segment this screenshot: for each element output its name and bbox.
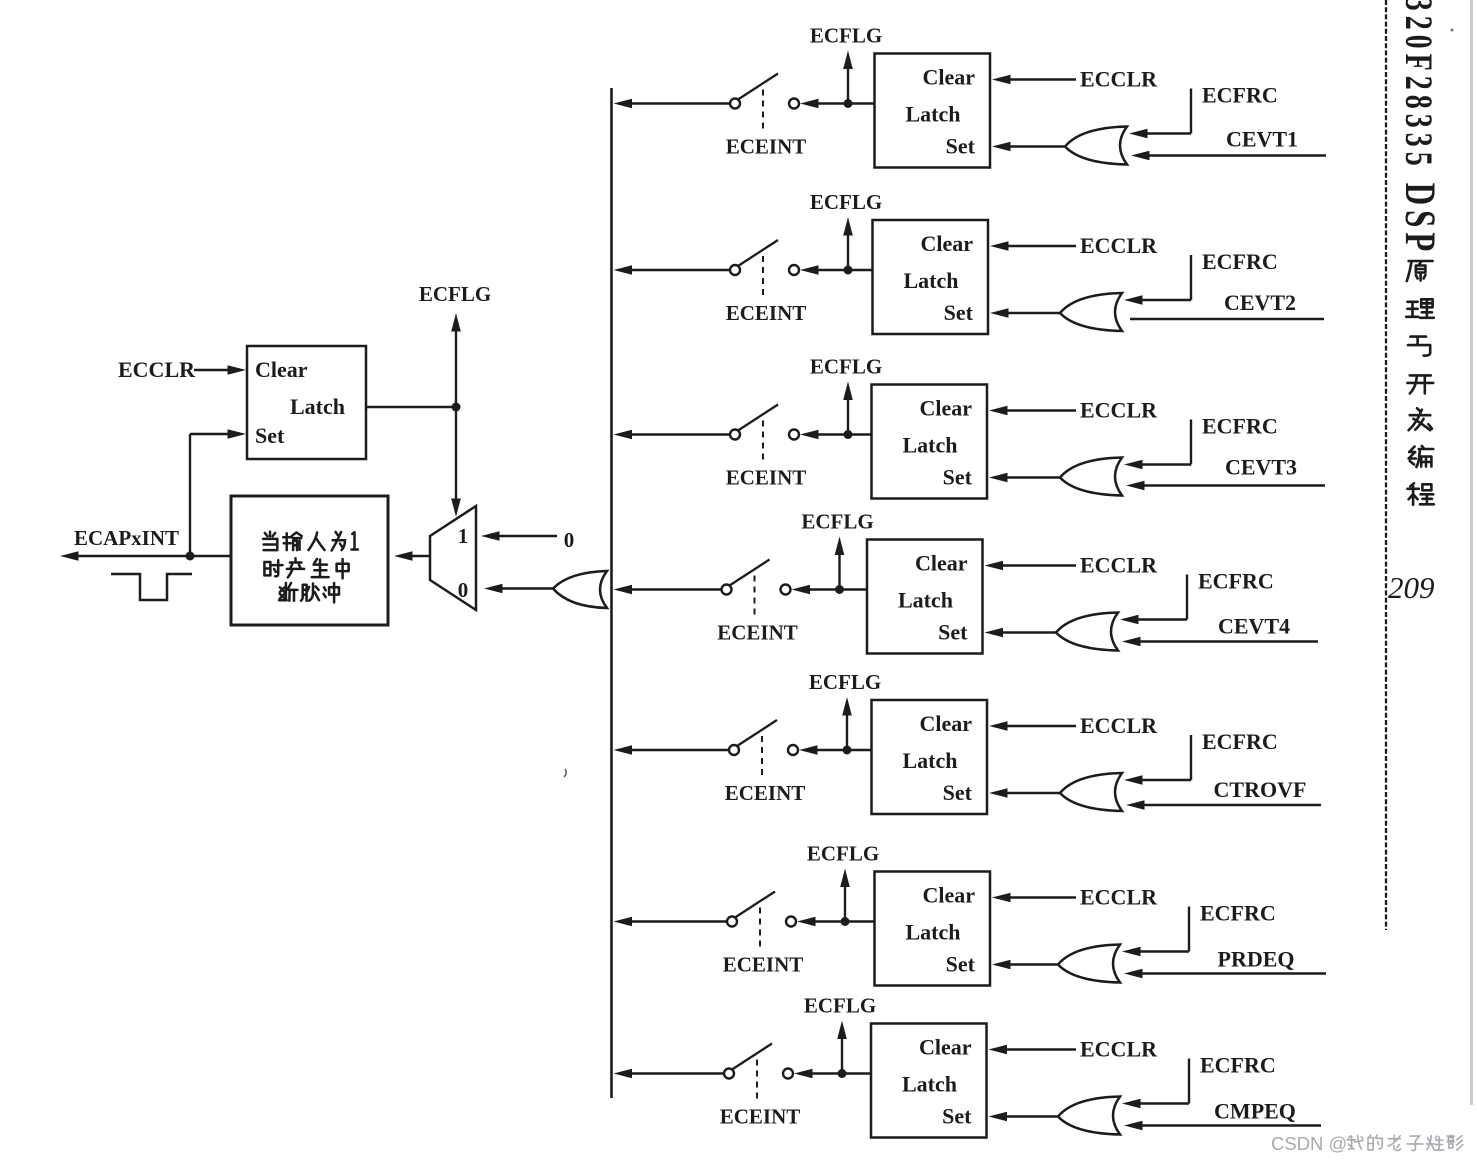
- svg-text:Set: Set: [946, 134, 976, 159]
- svg-text:PRDEQ: PRDEQ: [1218, 947, 1295, 972]
- svg-text:Clear: Clear: [919, 1035, 972, 1060]
- svg-text:CTROVF: CTROVF: [1214, 777, 1307, 802]
- svg-text:Latch: Latch: [898, 588, 953, 613]
- svg-text:Set: Set: [946, 952, 976, 977]
- svg-text:CSDN @: CSDN @: [1271, 1133, 1347, 1154]
- svg-text:0: 0: [458, 578, 469, 602]
- svg-text:Set: Set: [944, 300, 974, 325]
- svg-text:Set: Set: [943, 465, 973, 490]
- svg-text:Latch: Latch: [906, 920, 961, 945]
- svg-text:ECCLR: ECCLR: [1080, 398, 1158, 423]
- svg-text:0: 0: [564, 528, 575, 552]
- svg-text:CEVT3: CEVT3: [1225, 455, 1297, 480]
- svg-text:CEVT1: CEVT1: [1226, 127, 1298, 152]
- svg-text:Latch: Latch: [290, 394, 345, 419]
- svg-text:1: 1: [458, 524, 469, 548]
- svg-text:Latch: Latch: [902, 1072, 957, 1097]
- svg-text:ECFLG: ECFLG: [810, 190, 882, 214]
- svg-text:Clear: Clear: [915, 551, 968, 576]
- svg-text:CEVT4: CEVT4: [1218, 614, 1290, 639]
- svg-text:Clear: Clear: [919, 711, 972, 736]
- svg-text:Clear: Clear: [922, 883, 975, 908]
- svg-text:Clear: Clear: [255, 357, 308, 382]
- svg-text:ECCLR: ECCLR: [1080, 1037, 1158, 1062]
- svg-text:ECEINT: ECEINT: [726, 466, 807, 490]
- svg-text:320F28335 DSP: 320F28335 DSP: [1396, 0, 1444, 256]
- svg-text:ECEINT: ECEINT: [720, 1105, 801, 1129]
- svg-text:ECEINT: ECEINT: [723, 953, 804, 977]
- svg-text:ECFLG: ECFLG: [807, 842, 879, 866]
- svg-text:ECFRC: ECFRC: [1202, 249, 1278, 274]
- svg-text:ECFLG: ECFLG: [419, 282, 491, 306]
- svg-text:ECAPxINT: ECAPxINT: [74, 526, 179, 550]
- svg-text:Latch: Latch: [906, 102, 961, 127]
- svg-text:ECFLG: ECFLG: [801, 510, 873, 534]
- svg-text:ECFRC: ECFRC: [1198, 569, 1274, 594]
- svg-text:ECCLR: ECCLR: [1080, 713, 1158, 738]
- svg-text:ECEINT: ECEINT: [717, 621, 798, 645]
- svg-text:ECCLR: ECCLR: [1080, 885, 1158, 910]
- svg-text:ECFRC: ECFRC: [1200, 1053, 1276, 1078]
- svg-text:ECCLR: ECCLR: [1080, 553, 1158, 578]
- svg-text:Clear: Clear: [920, 231, 973, 256]
- svg-text:ECFLG: ECFLG: [804, 994, 876, 1018]
- svg-text:Set: Set: [255, 423, 285, 448]
- svg-text:Set: Set: [942, 1104, 972, 1129]
- svg-text:ECEINT: ECEINT: [725, 781, 806, 805]
- svg-text:Set: Set: [943, 780, 973, 805]
- svg-text:ECFLG: ECFLG: [809, 670, 881, 694]
- svg-text:ECCLR: ECCLR: [1080, 233, 1158, 258]
- svg-text:ECEINT: ECEINT: [726, 301, 807, 325]
- svg-text:209: 209: [1388, 570, 1435, 605]
- svg-text:ECCLR: ECCLR: [118, 357, 196, 382]
- svg-text:ECFRC: ECFRC: [1202, 729, 1278, 754]
- svg-text:ECFLG: ECFLG: [810, 24, 882, 48]
- svg-text:Latch: Latch: [903, 433, 958, 458]
- svg-text:ECCLR: ECCLR: [1080, 67, 1158, 92]
- svg-text:Clear: Clear: [919, 396, 972, 421]
- svg-text:Latch: Latch: [904, 268, 959, 293]
- svg-text:ECFRC: ECFRC: [1200, 901, 1276, 926]
- svg-text:Set: Set: [938, 620, 968, 645]
- svg-text:CMPEQ: CMPEQ: [1214, 1099, 1296, 1124]
- svg-text:Latch: Latch: [903, 748, 958, 773]
- svg-text:ECFRC: ECFRC: [1202, 83, 1278, 108]
- svg-text:Clear: Clear: [922, 65, 975, 90]
- svg-text:ECFLG: ECFLG: [810, 355, 882, 379]
- svg-text:ECEINT: ECEINT: [726, 135, 807, 159]
- svg-text:ECFRC: ECFRC: [1202, 414, 1278, 439]
- svg-text:CEVT2: CEVT2: [1224, 290, 1296, 315]
